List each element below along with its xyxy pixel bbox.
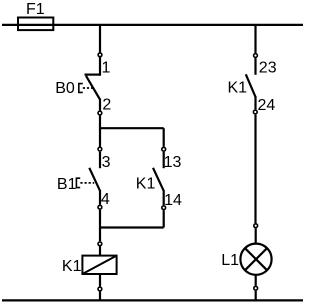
svg-text:4: 4 xyxy=(101,191,110,208)
wire node 3 to contact B1 xyxy=(99,152,101,169)
wire node 24 to lamp node xyxy=(254,115,256,224)
wire top bus rail xyxy=(2,24,303,26)
wire bottom node to bottom bus xyxy=(255,291,257,301)
wire lamp node to lamp L1 xyxy=(255,228,257,243)
wire node 1 to contact B0 xyxy=(99,57,101,75)
wire branch split xyxy=(100,127,164,129)
wire contact B0 to node 2 xyxy=(99,99,101,111)
svg-text:23: 23 xyxy=(259,60,277,77)
switch K1 NO contact 23-24 xyxy=(246,74,256,97)
wire node 4 down through join xyxy=(99,210,101,241)
svg-text:K1: K1 xyxy=(136,176,156,193)
svg-text:L1: L1 xyxy=(221,252,239,269)
pushbutton actuator B0 xyxy=(79,84,83,93)
svg-text:24: 24 xyxy=(258,97,276,114)
fuse F1 xyxy=(18,18,53,31)
wire bottom bus rail xyxy=(2,299,303,301)
svg-text:2: 2 xyxy=(102,97,111,114)
relay coil K1 xyxy=(82,256,116,274)
node 24 xyxy=(253,110,257,114)
node below lamp xyxy=(254,286,258,290)
node 2 xyxy=(98,111,102,115)
wire branch join xyxy=(100,226,164,228)
svg-text:K1: K1 xyxy=(228,80,248,97)
wire split to node 13 xyxy=(163,128,165,146)
node 23 xyxy=(254,54,258,58)
svg-text:3: 3 xyxy=(102,154,111,171)
node 3 xyxy=(98,147,102,151)
switch K1 NO auxiliary contact 13-14 xyxy=(153,168,164,191)
wire top bus to node 23 xyxy=(254,25,256,53)
wire top bus to node 1 xyxy=(99,25,101,53)
wire contact K1 to node 14 xyxy=(163,190,165,205)
node above lamp xyxy=(254,224,258,228)
svg-text:K1: K1 xyxy=(62,258,82,275)
node 1 xyxy=(98,53,102,57)
wire node 23 to contact K1 xyxy=(254,58,256,75)
svg-text:F1: F1 xyxy=(26,1,45,18)
node above coil xyxy=(98,242,102,246)
svg-text:13: 13 xyxy=(164,154,182,171)
svg-text:B1: B1 xyxy=(57,176,77,193)
wire coil K1 to bottom node xyxy=(99,275,101,286)
wire node 13 to contact K1 xyxy=(163,152,165,168)
wire bottom node to bottom bus xyxy=(99,292,101,301)
wire lamp L1 to bottom node xyxy=(255,275,257,286)
node 13 xyxy=(162,147,166,151)
switch B0 NC pushbutton contact xyxy=(85,73,101,75)
wire node 14 down to join xyxy=(163,210,165,227)
wire contact B1 to node 4 xyxy=(99,190,101,205)
switch B1 NO pushbutton contact xyxy=(89,168,100,191)
node 4 xyxy=(98,205,102,209)
wire node 2 to node 3 xyxy=(99,116,101,147)
pushbutton actuator B1 xyxy=(76,178,80,187)
svg-text:1: 1 xyxy=(102,59,111,76)
wire contact K1 to node 24 xyxy=(254,96,256,109)
node below coil xyxy=(98,287,102,291)
svg-text:14: 14 xyxy=(164,192,182,209)
wire junction to coil K1 xyxy=(99,246,101,255)
node 14 xyxy=(162,206,166,210)
lamp L1 xyxy=(240,244,271,275)
svg-text:B0: B0 xyxy=(55,80,75,97)
